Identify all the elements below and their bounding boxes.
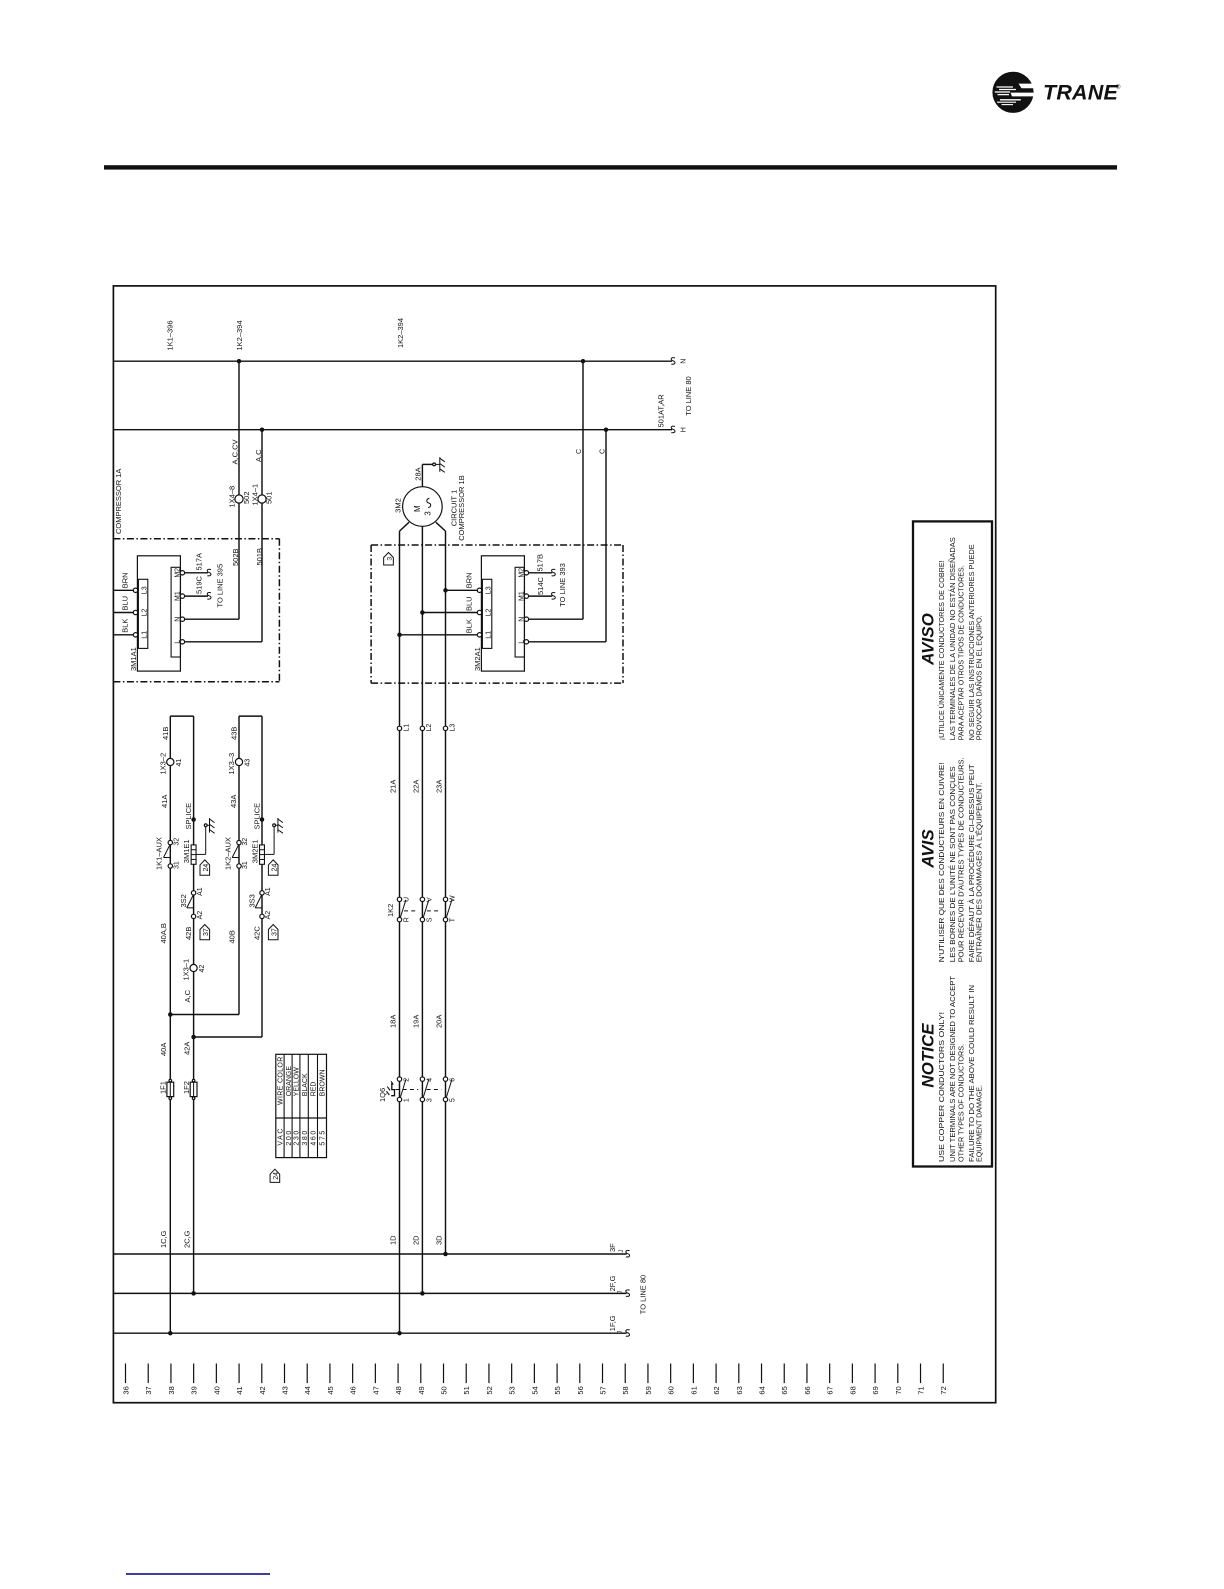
svg-text:RED: RED [311, 1082, 318, 1097]
svg-text:72: 72 [939, 1386, 948, 1394]
svg-text:24: 24 [271, 864, 278, 872]
svg-text:TO LINE 393: TO LINE 393 [558, 563, 567, 607]
svg-text:1F2: 1F2 [182, 1081, 191, 1094]
svg-text:1K2: 1K2 [386, 904, 395, 917]
svg-text:L3: L3 [142, 586, 149, 594]
svg-text:L: L [518, 640, 525, 644]
svg-text:3: 3 [426, 1098, 433, 1102]
svg-text:42: 42 [199, 965, 206, 973]
svg-text:WIRE COLOR: WIRE COLOR [278, 1056, 285, 1105]
svg-text:C: C [576, 449, 583, 454]
svg-text:31: 31 [174, 861, 181, 869]
svg-text:M1: M1 [518, 591, 525, 601]
svg-text:U: U [404, 897, 411, 902]
svg-text:AVIS: AVIS [919, 829, 938, 869]
svg-text:TO LINE 80: TO LINE 80 [639, 1275, 648, 1314]
svg-text:1F1: 1F1 [159, 1081, 168, 1094]
svg-text:230: 230 [294, 1129, 301, 1145]
svg-text:50: 50 [440, 1386, 449, 1394]
svg-text:3M1A1: 3M1A1 [129, 647, 138, 671]
svg-text:M: M [413, 505, 422, 512]
svg-text:M2: M2 [518, 568, 525, 578]
svg-text:1Q6: 1Q6 [378, 1088, 387, 1102]
svg-text:64: 64 [758, 1386, 767, 1394]
svg-text:AVISO: AVISO [919, 613, 938, 666]
svg-text:380: 380 [302, 1129, 309, 1145]
svg-text:6: 6 [450, 1078, 457, 1082]
svg-text:66: 66 [803, 1386, 812, 1394]
svg-text:1K2–394: 1K2–394 [396, 318, 405, 348]
svg-text:57: 57 [599, 1386, 608, 1394]
svg-text:YELLOW: YELLOW [294, 1067, 301, 1097]
svg-text:5: 5 [450, 1098, 457, 1102]
svg-text:39: 39 [190, 1386, 199, 1394]
svg-text:19A: 19A [412, 1015, 421, 1028]
svg-text:L2: L2 [142, 609, 149, 617]
svg-text:3F: 3F [608, 1243, 617, 1252]
svg-text:1X4–8: 1X4–8 [228, 486, 237, 508]
svg-text:70: 70 [894, 1386, 903, 1394]
svg-text:69: 69 [871, 1386, 880, 1394]
svg-text:1X3–3: 1X3–3 [227, 753, 236, 775]
svg-text:A,C,CV: A,C,CV [231, 439, 240, 464]
svg-text:M2: M2 [174, 568, 181, 578]
svg-text:NOTICE: NOTICE [919, 1023, 938, 1088]
svg-text:V: V [426, 897, 433, 902]
svg-text:A1: A1 [197, 887, 204, 896]
svg-text:BROWN: BROWN [320, 1069, 327, 1096]
svg-text:1X3–2: 1X3–2 [158, 753, 167, 775]
svg-text:BRN: BRN [120, 572, 129, 588]
svg-text:3: 3 [424, 511, 433, 516]
svg-text:N: N [518, 617, 525, 622]
svg-text:1X3–1: 1X3–1 [182, 959, 191, 981]
svg-text:60: 60 [667, 1386, 676, 1394]
svg-text:41B: 41B [161, 727, 170, 740]
svg-text:40B: 40B [228, 930, 237, 943]
svg-text:3S3: 3S3 [248, 894, 257, 907]
svg-text:1C,G: 1C,G [159, 1230, 168, 1248]
svg-text:SPLICE: SPLICE [252, 803, 261, 830]
svg-text:54: 54 [530, 1386, 539, 1394]
svg-text:22A: 22A [412, 780, 421, 793]
svg-text:L: L [174, 640, 181, 644]
svg-text:1F,G: 1F,G [608, 1315, 617, 1331]
svg-text:®: ® [1116, 84, 1121, 91]
svg-text:40A: 40A [159, 1043, 168, 1056]
svg-text:TRANE: TRANE [1043, 81, 1119, 105]
svg-text:SPLICE: SPLICE [184, 803, 193, 830]
svg-text:37: 37 [271, 928, 278, 936]
svg-text:45: 45 [326, 1386, 335, 1394]
svg-text:BLU: BLU [464, 596, 473, 611]
svg-text:A,C: A,C [183, 989, 192, 1002]
svg-text:43: 43 [245, 759, 252, 767]
svg-text:44: 44 [303, 1386, 312, 1394]
svg-text:A,C: A,C [254, 449, 263, 462]
svg-text:40: 40 [212, 1386, 221, 1394]
svg-text:3M2: 3M2 [394, 498, 403, 513]
svg-text:3M2E1: 3M2E1 [251, 839, 260, 863]
svg-text:51: 51 [462, 1386, 471, 1394]
svg-text:T: T [450, 917, 457, 922]
svg-text:46: 46 [349, 1386, 358, 1394]
svg-text:N: N [174, 617, 181, 622]
svg-text:42A: 42A [182, 1042, 191, 1055]
svg-text:H: H [680, 427, 687, 432]
svg-text:BLACK: BLACK [302, 1073, 309, 1096]
svg-text:3M2A1: 3M2A1 [473, 647, 482, 671]
svg-text:38: 38 [167, 1386, 176, 1394]
svg-text:M1: M1 [174, 591, 181, 601]
svg-text:1K1–396: 1K1–396 [165, 320, 174, 350]
svg-text:58: 58 [621, 1386, 630, 1394]
svg-text:24: 24 [273, 1172, 280, 1180]
svg-text:N: N [680, 359, 687, 364]
svg-text:OTHER TYPES OF CONDUCTORS.: OTHER TYPES OF CONDUCTORS. [957, 1044, 966, 1162]
svg-text:W: W [450, 895, 457, 902]
svg-text:EQUIPMENT DAMAGE.: EQUIPMENT DAMAGE. [975, 1085, 984, 1162]
svg-text:2D: 2D [412, 1235, 421, 1245]
svg-text:42: 42 [258, 1386, 267, 1394]
svg-text:L1: L1 [142, 631, 149, 639]
svg-text:31: 31 [242, 861, 249, 869]
svg-text:USE COPPER CONDUCTORS ONLY!: USE COPPER CONDUCTORS ONLY! [937, 1012, 946, 1162]
svg-text:59: 59 [644, 1386, 653, 1394]
svg-text:BLU: BLU [120, 596, 129, 611]
svg-text:42B: 42B [184, 927, 193, 940]
svg-text:37: 37 [144, 1386, 153, 1394]
svg-text:A2: A2 [197, 911, 204, 920]
svg-text:21A: 21A [389, 780, 398, 793]
svg-text:517B: 517B [536, 554, 545, 572]
svg-text:48: 48 [394, 1386, 403, 1394]
svg-text:502B: 502B [231, 548, 240, 566]
svg-text:2C,G: 2C,G [182, 1230, 191, 1248]
svg-text:41: 41 [235, 1386, 244, 1394]
svg-text:1D: 1D [389, 1235, 398, 1245]
svg-text:1K1–AUX: 1K1–AUX [155, 837, 164, 870]
svg-text:BLK: BLK [464, 619, 473, 633]
svg-text:24: 24 [203, 864, 210, 872]
svg-text:575: 575 [320, 1129, 327, 1145]
svg-text:514C: 514C [536, 576, 545, 595]
svg-text:65: 65 [780, 1386, 789, 1394]
svg-text:J: J [619, 1250, 625, 1253]
svg-text:L1: L1 [486, 631, 493, 639]
svg-text:1: 1 [404, 1098, 411, 1102]
svg-text:3: 3 [387, 557, 394, 561]
svg-text:TO LINE 80: TO LINE 80 [684, 376, 693, 415]
svg-text:501: 501 [265, 491, 274, 504]
svg-text:55: 55 [553, 1386, 562, 1394]
svg-text:2: 2 [404, 1078, 411, 1082]
svg-text:N'UTILISER QUE DES CONDUCTEURS: N'UTILISER QUE DES CONDUCTEURS EN CUIVRE… [937, 762, 946, 962]
svg-text:67: 67 [826, 1386, 835, 1394]
svg-text:BRN: BRN [464, 572, 473, 588]
svg-text:PROVOCAR DAÑOS EN EL EQUIPO.: PROVOCAR DAÑOS EN EL EQUIPO. [975, 615, 984, 740]
svg-text:42C: 42C [253, 926, 262, 940]
svg-text:L3: L3 [486, 586, 493, 594]
svg-text:A1: A1 [265, 887, 272, 896]
svg-text:28A: 28A [414, 467, 423, 480]
svg-text:47: 47 [371, 1386, 380, 1394]
svg-text:519C: 519C [195, 575, 204, 594]
svg-text:40A,B: 40A,B [159, 923, 168, 943]
svg-text:R: R [404, 917, 411, 922]
svg-text:501B: 501B [255, 548, 264, 566]
svg-text:1K2–394: 1K2–394 [235, 320, 244, 350]
svg-text:¡UTILICE ÚNICAMENTE CONDUCTORE: ¡UTILICE ÚNICAMENTE CONDUCTORES DE COBRE… [937, 560, 946, 740]
svg-text:32: 32 [242, 838, 249, 846]
svg-text:ENTRAÎNER DES DOMMAGES À L'ÉQU: ENTRAÎNER DES DOMMAGES À L'ÉQUIPEMENT. [975, 782, 984, 962]
svg-text:36: 36 [122, 1386, 131, 1394]
svg-text:3S2: 3S2 [179, 894, 188, 907]
svg-text:43B: 43B [230, 727, 239, 740]
svg-text:C: C [599, 449, 606, 454]
svg-text:71: 71 [917, 1386, 926, 1394]
svg-text:TO LINE 395: TO LINE 395 [216, 564, 225, 608]
svg-text:501AT,AR: 501AT,AR [657, 394, 666, 428]
svg-text:23A: 23A [435, 780, 444, 793]
svg-text:43A: 43A [229, 795, 238, 808]
svg-text:32: 32 [174, 838, 181, 846]
svg-text:VAC: VAC [278, 1127, 285, 1146]
svg-text:ORANGE: ORANGE [286, 1066, 293, 1097]
svg-text:COMPRESSOR 1A: COMPRESSOR 1A [114, 469, 123, 534]
svg-text:3D: 3D [435, 1235, 444, 1245]
svg-text:1K2–AUX: 1K2–AUX [223, 837, 232, 870]
svg-text:37: 37 [203, 928, 210, 936]
svg-text:2F,G: 2F,G [608, 1275, 617, 1291]
svg-text:41A: 41A [160, 795, 169, 808]
svg-text:61: 61 [689, 1386, 698, 1394]
svg-text:BLK: BLK [120, 619, 129, 633]
svg-text:62: 62 [712, 1386, 721, 1394]
svg-text:COMPRESSOR 1B: COMPRESSOR 1B [457, 475, 466, 540]
svg-text:460: 460 [311, 1129, 318, 1145]
svg-text:63: 63 [735, 1386, 744, 1394]
svg-text:18A: 18A [389, 1015, 398, 1028]
svg-text:J: J [618, 1291, 624, 1294]
svg-text:56: 56 [576, 1386, 585, 1394]
svg-text:L2: L2 [426, 724, 433, 732]
svg-text:49: 49 [417, 1386, 426, 1394]
svg-text:52: 52 [485, 1386, 494, 1394]
svg-text:3M1E1: 3M1E1 [182, 839, 191, 863]
svg-text:200: 200 [286, 1129, 293, 1145]
svg-text:68: 68 [848, 1386, 857, 1394]
svg-text:J: J [618, 1331, 624, 1334]
svg-text:43: 43 [281, 1386, 290, 1394]
svg-text:POUR RECEVOIR D'AUTRES TYPES D: POUR RECEVOIR D'AUTRES TYPES DE CONDUCTE… [957, 757, 966, 962]
svg-text:1X4–1: 1X4–1 [251, 484, 260, 506]
svg-text:517A: 517A [195, 553, 204, 571]
svg-text:S: S [426, 917, 433, 922]
svg-text:L1: L1 [403, 724, 410, 732]
svg-text:4: 4 [426, 1078, 433, 1082]
svg-text:PARA ACEPTAR OTROS TIPOS DE CO: PARA ACEPTAR OTROS TIPOS DE CONDUCTORES. [957, 565, 966, 740]
svg-text:L2: L2 [486, 609, 493, 617]
svg-text:L3: L3 [449, 724, 456, 732]
svg-text:53: 53 [508, 1386, 517, 1394]
svg-text:A2: A2 [265, 911, 272, 920]
svg-text:20A: 20A [435, 1015, 444, 1028]
svg-text:41: 41 [176, 759, 183, 767]
